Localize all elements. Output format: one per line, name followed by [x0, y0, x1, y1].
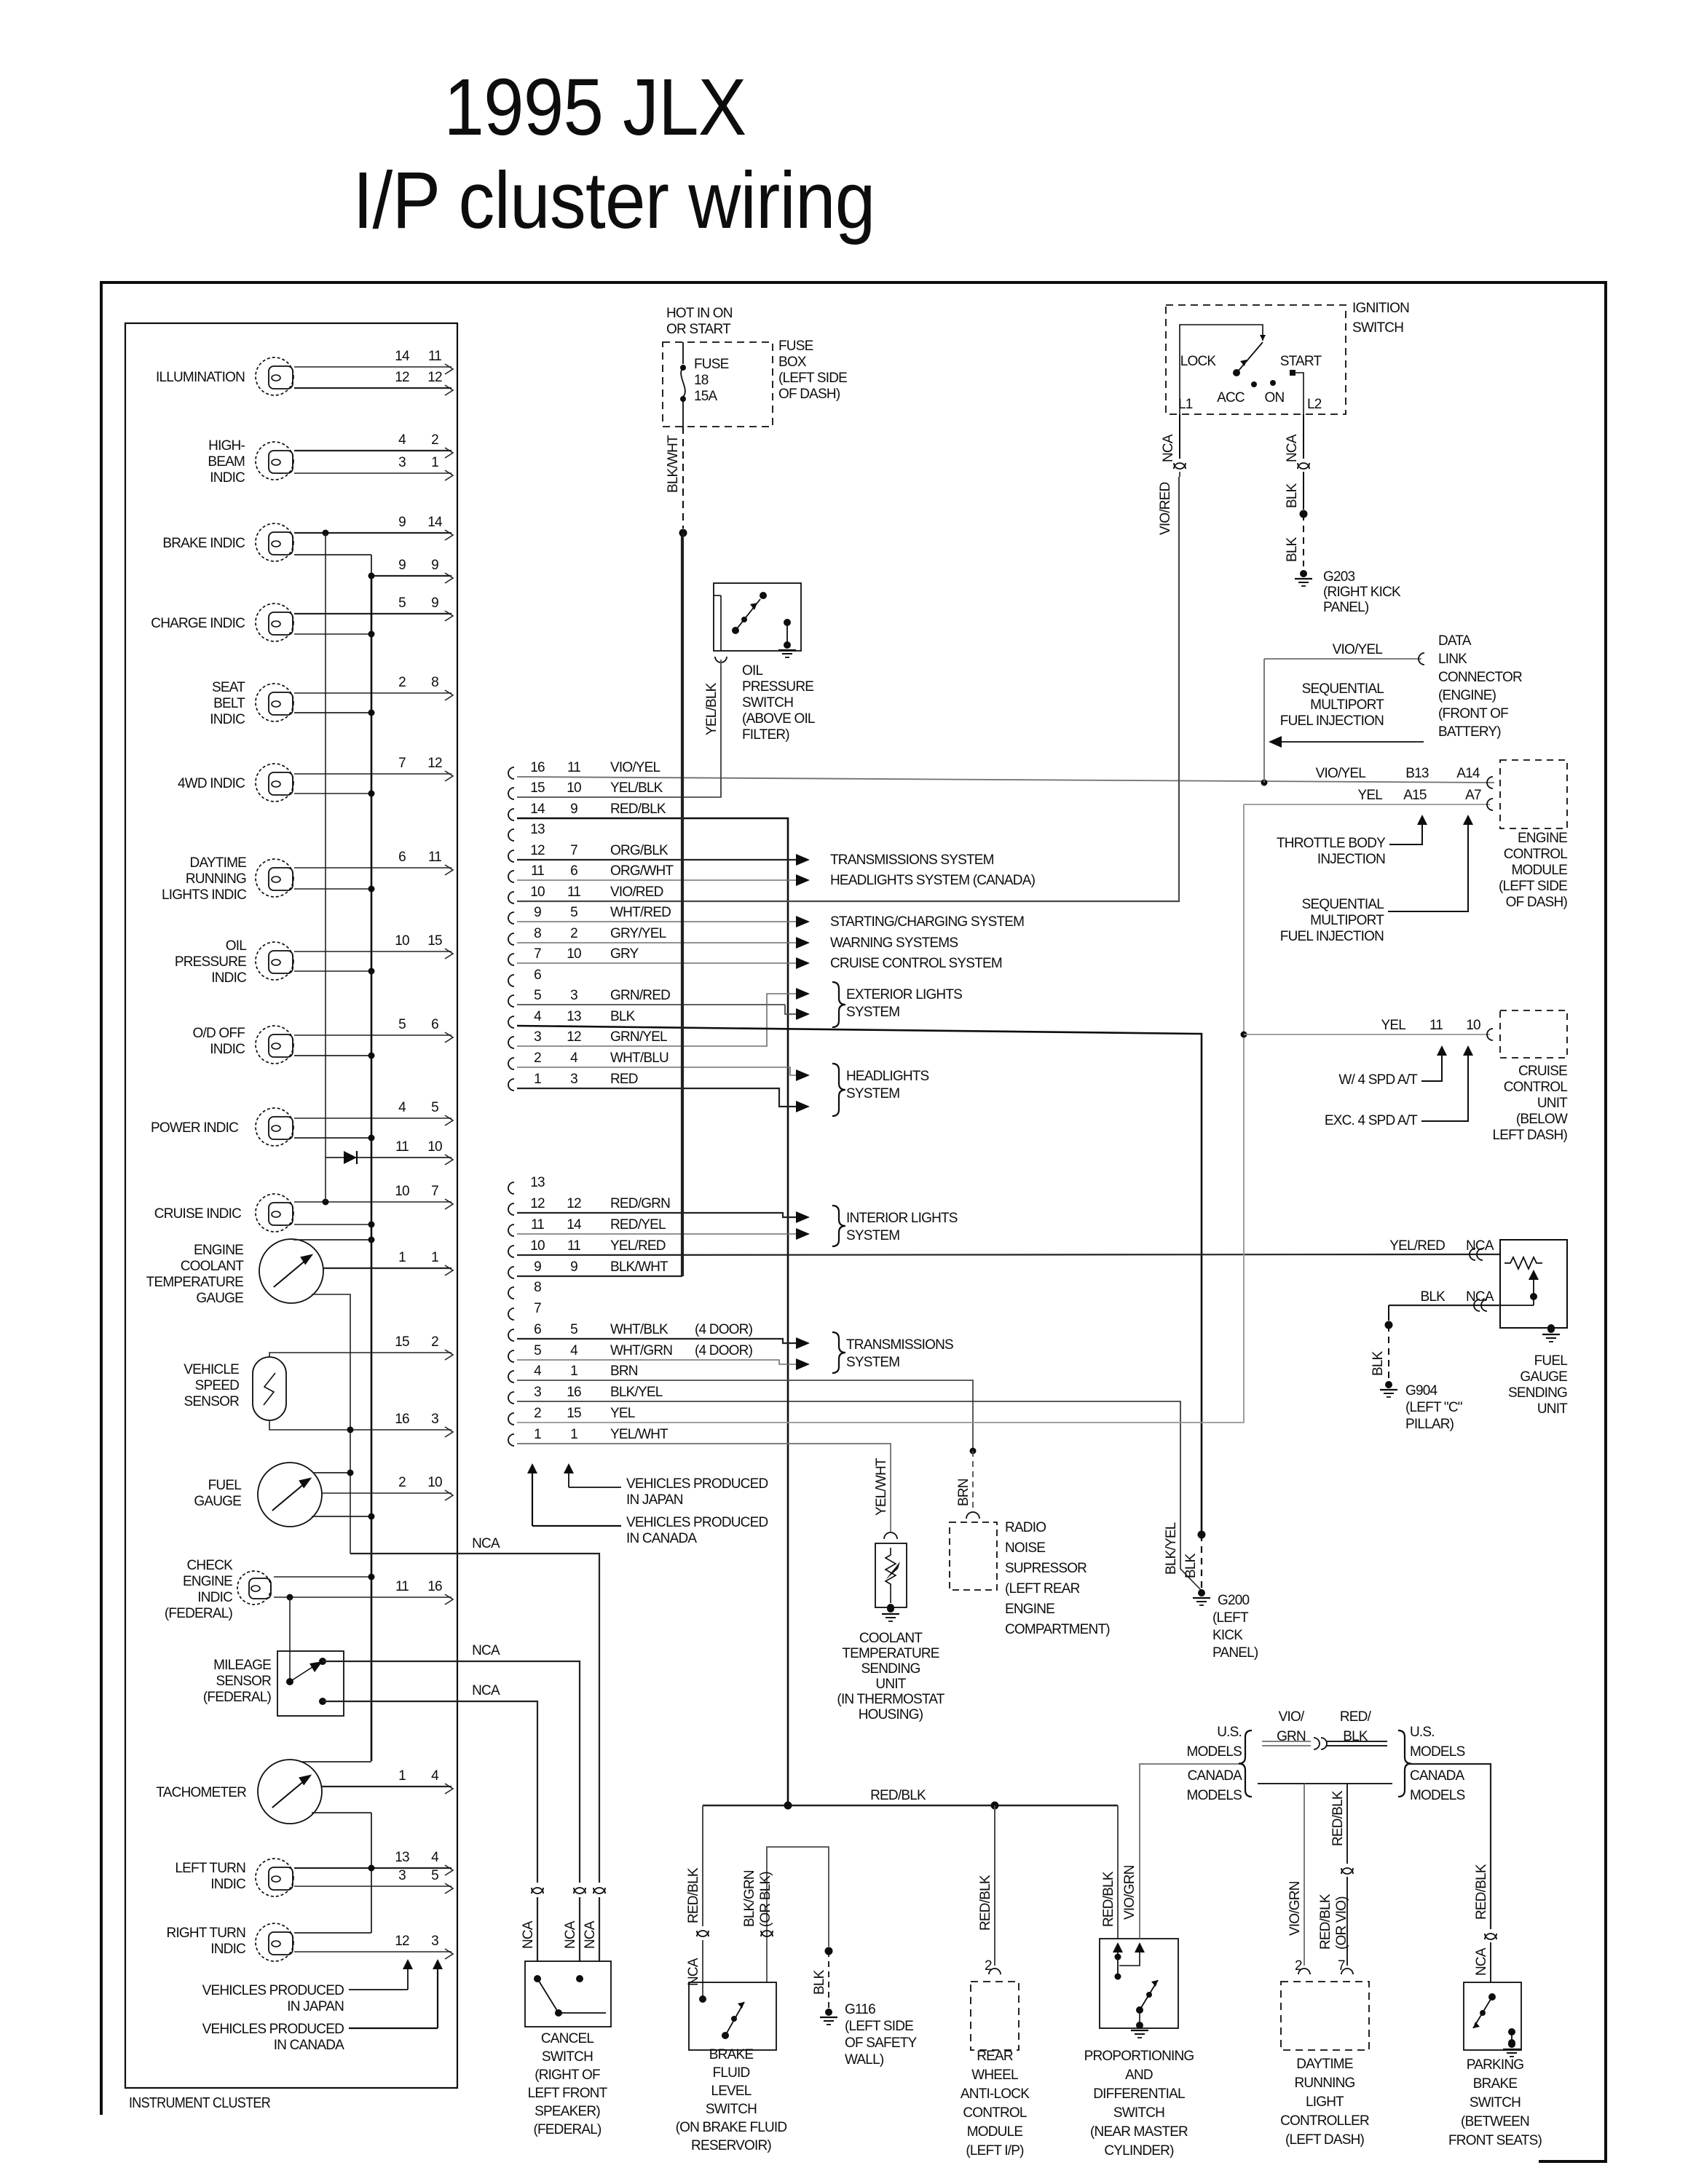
svg-text:KICK: KICK: [1212, 1628, 1243, 1643]
svg-text:(BETWEEN: (BETWEEN: [1461, 2114, 1529, 2129]
svg-text:SPEAKER): SPEAKER): [535, 2104, 600, 2119]
svg-text:2: 2: [985, 1958, 992, 1974]
svg-text:BRAKE INDIC: BRAKE INDIC: [162, 536, 245, 551]
svg-text:LINK: LINK: [1438, 652, 1467, 667]
svg-text:8: 8: [431, 675, 438, 690]
svg-text:10: 10: [427, 1139, 442, 1155]
svg-text:BATTERY): BATTERY): [1438, 724, 1501, 740]
svg-text:4: 4: [570, 1343, 578, 1358]
svg-text:YEL/RED: YEL/RED: [1389, 1238, 1445, 1254]
svg-text:2: 2: [1295, 1958, 1302, 1974]
svg-text:YEL: YEL: [1357, 788, 1382, 803]
svg-text:WALL): WALL): [845, 2052, 884, 2068]
svg-text:(LEFT SIDE: (LEFT SIDE: [1499, 879, 1567, 894]
svg-text:VEHICLE: VEHICLE: [184, 1362, 239, 1377]
svg-text:BLK/WHT: BLK/WHT: [610, 1259, 669, 1275]
svg-text:7: 7: [431, 1184, 438, 1199]
svg-text:10: 10: [427, 1475, 442, 1490]
svg-text:A15: A15: [1403, 788, 1427, 803]
svg-text:LIGHT: LIGHT: [1306, 2094, 1344, 2110]
svg-text:9: 9: [431, 596, 438, 611]
svg-text:BLK: BLK: [1183, 1553, 1199, 1578]
svg-text:VIO/RED: VIO/RED: [610, 885, 663, 900]
svg-text:MULTIPORT: MULTIPORT: [1310, 697, 1384, 713]
svg-text:(LEFT SIDE: (LEFT SIDE: [778, 371, 847, 386]
svg-text:FRONT SEATS): FRONT SEATS): [1448, 2133, 1542, 2148]
svg-text:FLUID: FLUID: [713, 2065, 750, 2081]
svg-text:(IN THERMOSTAT: (IN THERMOSTAT: [837, 1692, 944, 1707]
svg-text:IGNITION: IGNITION: [1352, 301, 1409, 316]
svg-text:12: 12: [530, 1196, 545, 1211]
svg-text:ENGINE: ENGINE: [1518, 831, 1567, 846]
svg-text:SEQUENTIAL: SEQUENTIAL: [1302, 897, 1384, 912]
svg-text:RUNNING: RUNNING: [186, 871, 246, 887]
svg-text:A7: A7: [1465, 788, 1481, 803]
svg-text:7: 7: [1338, 1958, 1345, 1974]
svg-text:OIL: OIL: [226, 938, 246, 954]
svg-text:BLK/YEL: BLK/YEL: [610, 1385, 663, 1400]
svg-text:RED: RED: [610, 1072, 638, 1087]
svg-text:YEL/WHT: YEL/WHT: [874, 1457, 889, 1516]
svg-text:3: 3: [431, 1934, 438, 1949]
svg-text:4: 4: [398, 432, 406, 448]
svg-text:PRESSURE: PRESSURE: [742, 679, 813, 695]
svg-text:6: 6: [534, 968, 541, 983]
svg-text:(4 DOOR): (4 DOOR): [695, 1322, 753, 1337]
svg-text:9: 9: [534, 1259, 541, 1275]
svg-text:INJECTION: INJECTION: [1317, 852, 1385, 867]
svg-text:INDIC: INDIC: [210, 712, 245, 727]
svg-text:2: 2: [398, 1475, 406, 1490]
svg-text:6: 6: [534, 1322, 541, 1337]
svg-text:16: 16: [530, 760, 545, 775]
svg-text:1: 1: [570, 1364, 577, 1379]
svg-text:MODELS: MODELS: [1187, 1744, 1242, 1760]
svg-text:FILTER): FILTER): [742, 727, 789, 743]
svg-text:UNIT: UNIT: [875, 1677, 906, 1692]
svg-text:5: 5: [398, 1017, 406, 1032]
svg-text:HOT IN ON: HOT IN ON: [666, 306, 733, 321]
svg-text:CONTROL: CONTROL: [1504, 847, 1568, 862]
svg-text:VIO/YEL: VIO/YEL: [1333, 642, 1383, 657]
svg-text:(ON BRAKE FLUID: (ON BRAKE FLUID: [676, 2120, 787, 2135]
svg-text:NCA: NCA: [521, 1920, 536, 1949]
svg-text:ILLUMINATION: ILLUMINATION: [156, 370, 245, 385]
svg-text:1: 1: [534, 1427, 541, 1442]
svg-text:G904: G904: [1405, 1383, 1438, 1398]
svg-text:CONTROL: CONTROL: [1504, 1080, 1568, 1095]
svg-text:2: 2: [431, 1334, 438, 1350]
svg-text:MODELS: MODELS: [1187, 1788, 1242, 1803]
svg-text:INDIC: INDIC: [210, 1042, 245, 1057]
svg-text:DAYTIME: DAYTIME: [190, 855, 247, 871]
svg-text:CANCEL: CANCEL: [541, 2031, 594, 2046]
svg-text:BLK: BLK: [1370, 1350, 1386, 1376]
svg-text:MODULE: MODULE: [1512, 863, 1568, 878]
svg-text:1: 1: [534, 1072, 541, 1087]
svg-text:RED/BLK: RED/BLK: [610, 802, 666, 817]
svg-text:7: 7: [398, 756, 406, 771]
svg-text:POWER INDIC: POWER INDIC: [151, 1120, 238, 1136]
svg-text:BRAKE: BRAKE: [1473, 2076, 1518, 2092]
svg-text:7: 7: [534, 946, 541, 962]
svg-text:9: 9: [398, 515, 406, 530]
svg-text:TACHOMETER: TACHOMETER: [156, 1785, 246, 1800]
svg-text:16: 16: [395, 1412, 409, 1427]
svg-text:BLK: BLK: [1285, 483, 1300, 508]
svg-text:WHEEL: WHEEL: [971, 2068, 1018, 2083]
svg-text:(4 DOOR): (4 DOOR): [695, 1343, 753, 1358]
svg-text:(LEFT: (LEFT: [1212, 1610, 1249, 1626]
svg-text:VIO/YEL: VIO/YEL: [610, 760, 660, 775]
svg-text:14: 14: [530, 802, 545, 817]
svg-text:(LEFT SIDE: (LEFT SIDE: [845, 2019, 913, 2034]
svg-text:5: 5: [534, 1343, 541, 1358]
svg-text:(ABOVE OIL: (ABOVE OIL: [742, 711, 815, 727]
svg-text:(FRONT OF: (FRONT OF: [1438, 706, 1508, 721]
svg-text:LIGHTS INDIC: LIGHTS INDIC: [162, 887, 246, 903]
svg-text:2: 2: [431, 432, 438, 448]
svg-text:PARKING: PARKING: [1467, 2057, 1524, 2073]
svg-text:CRUISE INDIC: CRUISE INDIC: [154, 1206, 241, 1222]
svg-text:12: 12: [427, 756, 442, 771]
svg-text:YEL: YEL: [610, 1406, 635, 1421]
svg-text:OF DASH): OF DASH): [1506, 895, 1568, 910]
svg-text:INDIC: INDIC: [211, 970, 246, 986]
svg-text:(FEDERAL): (FEDERAL): [533, 2122, 602, 2137]
svg-text:THROTTLE BODY: THROTTLE BODY: [1277, 836, 1386, 851]
svg-text:GAUGE: GAUGE: [1520, 1369, 1567, 1385]
svg-text:5: 5: [431, 1868, 438, 1883]
svg-text:VEHICLES PRODUCED: VEHICLES PRODUCED: [202, 2022, 344, 2037]
svg-text:SWITCH: SWITCH: [1113, 2105, 1164, 2121]
svg-text:1: 1: [398, 1768, 406, 1784]
svg-text:15A: 15A: [694, 389, 718, 404]
svg-text:5: 5: [431, 1100, 438, 1115]
svg-text:2: 2: [398, 675, 406, 690]
svg-text:HEADLIGHTS: HEADLIGHTS: [846, 1069, 929, 1084]
svg-text:(NEAR MASTER: (NEAR MASTER: [1090, 2124, 1188, 2140]
svg-text:OR START: OR START: [666, 322, 731, 337]
svg-text:PRESSURE: PRESSURE: [175, 954, 246, 970]
svg-text:OF DASH): OF DASH): [778, 387, 840, 402]
svg-text:TRANSMISSIONS SYSTEM: TRANSMISSIONS SYSTEM: [830, 852, 994, 868]
svg-text:B13: B13: [1405, 766, 1429, 781]
svg-text:STARTING/CHARGING SYSTEM: STARTING/CHARGING SYSTEM: [830, 914, 1024, 930]
svg-text:SPEED: SPEED: [195, 1378, 239, 1393]
svg-text:LEFT FRONT: LEFT FRONT: [528, 2086, 608, 2101]
svg-text:4: 4: [431, 1850, 439, 1865]
svg-text:5: 5: [534, 988, 541, 1003]
svg-text:1995 JLX: 1995 JLX: [444, 63, 746, 152]
svg-text:RED/GRN: RED/GRN: [610, 1196, 670, 1211]
svg-text:COMPARTMENT): COMPARTMENT): [1005, 1622, 1110, 1637]
svg-text:CHECK: CHECK: [186, 1558, 233, 1573]
svg-text:START: START: [1280, 354, 1322, 369]
svg-text:FUSE: FUSE: [778, 339, 813, 354]
svg-text:BOX: BOX: [778, 355, 807, 370]
svg-text:VIO/RED: VIO/RED: [1158, 482, 1173, 535]
svg-text:WHT/BLK: WHT/BLK: [610, 1322, 669, 1337]
svg-text:6: 6: [570, 863, 577, 879]
svg-text:15: 15: [530, 780, 545, 796]
svg-text:NCA: NCA: [1466, 1289, 1494, 1305]
svg-text:A14: A14: [1456, 766, 1480, 781]
svg-text:TEMPERATURE: TEMPERATURE: [842, 1646, 939, 1661]
svg-text:YEL/WHT: YEL/WHT: [610, 1427, 669, 1442]
svg-text:MODELS: MODELS: [1410, 1744, 1465, 1760]
svg-text:WHT/GRN: WHT/GRN: [610, 1343, 672, 1358]
svg-text:3: 3: [431, 1412, 438, 1427]
svg-text:10: 10: [567, 780, 581, 796]
svg-text:1: 1: [431, 1250, 438, 1265]
svg-text:MODELS: MODELS: [1410, 1788, 1465, 1803]
svg-text:RED/BLK: RED/BLK: [978, 1875, 993, 1931]
svg-text:RED/BLK: RED/BLK: [870, 1788, 926, 1803]
svg-text:AND: AND: [1125, 2068, 1153, 2083]
svg-text:INDIC: INDIC: [210, 470, 245, 486]
svg-text:VEHICLES PRODUCED: VEHICLES PRODUCED: [626, 1476, 768, 1492]
svg-text:10: 10: [395, 933, 409, 949]
svg-text:VIO/GRN: VIO/GRN: [1122, 1865, 1137, 1920]
svg-text:10: 10: [567, 946, 581, 962]
svg-text:10: 10: [1466, 1018, 1480, 1033]
svg-text:OIL: OIL: [742, 663, 762, 678]
svg-text:SWITCH: SWITCH: [706, 2102, 757, 2117]
svg-text:4: 4: [398, 1100, 406, 1115]
svg-text:CYLINDER): CYLINDER): [1104, 2143, 1174, 2159]
svg-text:WARNING SYSTEMS: WARNING SYSTEMS: [830, 935, 958, 951]
svg-text:11: 11: [567, 885, 580, 900]
svg-text:9: 9: [570, 802, 577, 817]
svg-text:COOLANT: COOLANT: [859, 1631, 923, 1646]
svg-text:10: 10: [530, 1238, 545, 1254]
svg-text:BELT: BELT: [213, 696, 245, 711]
svg-text:9: 9: [570, 1259, 577, 1275]
svg-text:13: 13: [567, 1009, 581, 1024]
svg-text:11: 11: [395, 1579, 409, 1594]
svg-text:3: 3: [398, 455, 406, 470]
svg-text:CANADA: CANADA: [1188, 1768, 1243, 1784]
svg-text:EXC. 4 SPD A/T: EXC. 4 SPD A/T: [1325, 1113, 1418, 1128]
svg-text:10: 10: [395, 1184, 409, 1199]
svg-text:RED/BLK: RED/BLK: [1101, 1871, 1116, 1927]
svg-text:14: 14: [395, 349, 410, 364]
svg-text:4: 4: [570, 1051, 578, 1066]
svg-text:14: 14: [427, 515, 443, 530]
svg-text:12: 12: [567, 1196, 581, 1211]
svg-text:(LEFT DASH): (LEFT DASH): [1285, 2132, 1365, 2148]
svg-text:NCA: NCA: [563, 1920, 578, 1949]
svg-text:NCA: NCA: [472, 1683, 500, 1698]
svg-text:GAUGE: GAUGE: [194, 1494, 241, 1509]
svg-text:11: 11: [531, 1217, 544, 1233]
svg-text:ENGINE: ENGINE: [194, 1243, 243, 1258]
svg-text:G203: G203: [1323, 569, 1355, 585]
svg-text:16: 16: [427, 1579, 442, 1594]
svg-text:1: 1: [398, 1250, 406, 1265]
svg-text:4: 4: [534, 1009, 542, 1024]
svg-text:MODULE: MODULE: [967, 2124, 1023, 2140]
svg-text:ORG/WHT: ORG/WHT: [610, 863, 674, 879]
svg-text:IN JAPAN: IN JAPAN: [287, 1999, 344, 2014]
svg-text:VIO/: VIO/: [1279, 1709, 1305, 1725]
svg-text:HIGH-: HIGH-: [208, 438, 245, 454]
svg-text:13: 13: [395, 1850, 409, 1865]
svg-text:14: 14: [567, 1217, 582, 1233]
svg-text:PROPORTIONING: PROPORTIONING: [1084, 2049, 1194, 2064]
svg-text:9: 9: [534, 905, 541, 920]
svg-text:G200: G200: [1218, 1593, 1250, 1608]
svg-text:WHT/RED: WHT/RED: [610, 905, 671, 920]
svg-text:INTERIOR LIGHTS: INTERIOR LIGHTS: [846, 1211, 958, 1226]
svg-text:(OR BLK): (OR BLK): [758, 1872, 773, 1927]
svg-text:LEVEL: LEVEL: [711, 2084, 751, 2099]
svg-text:YEL/BLK: YEL/BLK: [704, 682, 719, 735]
svg-text:2: 2: [570, 926, 577, 941]
svg-text:BLK: BLK: [610, 1009, 636, 1024]
svg-text:G116: G116: [845, 2002, 875, 2017]
svg-text:EXTERIOR LIGHTS: EXTERIOR LIGHTS: [846, 987, 962, 1002]
svg-text:5: 5: [570, 905, 577, 920]
svg-text:NCA: NCA: [472, 1536, 500, 1551]
svg-text:CANADA: CANADA: [1410, 1768, 1465, 1784]
svg-text:4WD INDIC: 4WD INDIC: [178, 776, 245, 791]
svg-text:3: 3: [398, 1868, 406, 1883]
svg-text:ENGINE: ENGINE: [1005, 1602, 1054, 1617]
svg-text:RED/BLK: RED/BLK: [1330, 1790, 1346, 1846]
svg-text:6: 6: [431, 1017, 438, 1032]
svg-text:3: 3: [534, 1385, 541, 1400]
svg-text:3: 3: [570, 988, 577, 1003]
svg-text:NCA: NCA: [1161, 434, 1176, 462]
svg-text:FUSE: FUSE: [694, 357, 729, 372]
svg-text:15: 15: [395, 1334, 409, 1350]
svg-text:VIO/YEL: VIO/YEL: [1316, 766, 1366, 781]
svg-text:15: 15: [427, 933, 442, 949]
svg-text:8: 8: [534, 926, 541, 941]
svg-text:SENSOR: SENSOR: [216, 1674, 272, 1689]
svg-text:VEHICLES PRODUCED: VEHICLES PRODUCED: [626, 1515, 768, 1530]
svg-text:PILLAR): PILLAR): [1405, 1417, 1454, 1432]
svg-text:11: 11: [428, 349, 441, 364]
svg-text:MULTIPORT: MULTIPORT: [1310, 913, 1384, 928]
svg-text:7: 7: [570, 843, 577, 858]
svg-text:NCA: NCA: [1474, 1947, 1489, 1976]
svg-text:BLK: BLK: [1285, 537, 1300, 562]
svg-text:11: 11: [567, 1238, 580, 1254]
svg-text:ACC: ACC: [1217, 390, 1245, 405]
svg-text:(FEDERAL): (FEDERAL): [165, 1606, 233, 1621]
svg-text:3: 3: [534, 1029, 541, 1045]
svg-text:ANTI-LOCK: ANTI-LOCK: [961, 2086, 1030, 2102]
svg-text:I/P cluster wiring: I/P cluster wiring: [353, 156, 875, 245]
svg-text:3: 3: [570, 1072, 577, 1087]
svg-text:NCA: NCA: [1285, 434, 1300, 462]
svg-text:BLK/GRN: BLK/GRN: [742, 1870, 757, 1927]
svg-text:SWITCH: SWITCH: [542, 2049, 593, 2065]
svg-text:SEQUENTIAL: SEQUENTIAL: [1302, 681, 1384, 697]
svg-text:BRN: BRN: [610, 1364, 638, 1379]
svg-text:PANEL): PANEL): [1212, 1645, 1258, 1661]
svg-text:LEFT DASH): LEFT DASH): [1492, 1128, 1567, 1143]
svg-text:YEL/RED: YEL/RED: [610, 1238, 666, 1254]
svg-text:12: 12: [427, 370, 442, 385]
svg-text:13: 13: [530, 822, 545, 837]
svg-text:1: 1: [570, 1427, 577, 1442]
svg-text:GRN/RED: GRN/RED: [610, 988, 670, 1003]
svg-text:SYSTEM: SYSTEM: [846, 1228, 899, 1243]
svg-text:5: 5: [570, 1322, 577, 1337]
svg-text:UNIT: UNIT: [1537, 1401, 1568, 1417]
svg-text:INDIC: INDIC: [210, 1877, 245, 1892]
svg-text:2: 2: [534, 1406, 541, 1421]
svg-text:FUEL: FUEL: [208, 1478, 242, 1493]
svg-text:RUNNING: RUNNING: [1294, 2076, 1354, 2091]
svg-text:INDIC: INDIC: [210, 1942, 245, 1957]
svg-text:RED/BLK: RED/BLK: [1318, 1894, 1333, 1950]
svg-text:CONTROLLER: CONTROLLER: [1280, 2113, 1369, 2129]
svg-text:10: 10: [530, 885, 545, 900]
svg-text:L1: L1: [1178, 397, 1193, 412]
svg-text:SWITCH: SWITCH: [1352, 320, 1403, 336]
svg-text:TEMPERATURE: TEMPERATURE: [146, 1275, 243, 1290]
svg-text:GAUGE: GAUGE: [196, 1291, 243, 1306]
svg-text:6: 6: [398, 850, 406, 865]
svg-text:(LEFT "C": (LEFT "C": [1405, 1400, 1462, 1415]
svg-text:U.S.: U.S.: [1217, 1725, 1242, 1740]
svg-text:IN CANADA: IN CANADA: [274, 2038, 344, 2053]
svg-text:SENDING: SENDING: [861, 1661, 920, 1677]
svg-text:CRUISE: CRUISE: [1518, 1064, 1567, 1079]
svg-text:VEHICLES PRODUCED: VEHICLES PRODUCED: [202, 1983, 344, 1998]
svg-text:SENDING: SENDING: [1508, 1385, 1567, 1401]
svg-text:BLK/YEL: BLK/YEL: [1164, 1522, 1179, 1575]
svg-text:2: 2: [534, 1051, 541, 1066]
svg-text:12: 12: [395, 1934, 409, 1949]
svg-text:(ENGINE): (ENGINE): [1438, 688, 1496, 703]
svg-text:FUEL: FUEL: [1534, 1353, 1568, 1369]
svg-text:WHT/BLU: WHT/BLU: [610, 1051, 669, 1066]
svg-text:TRANSMISSIONS: TRANSMISSIONS: [846, 1337, 953, 1353]
svg-text:OF SAFETY: OF SAFETY: [845, 2035, 917, 2051]
svg-text:CONTROL: CONTROL: [963, 2105, 1027, 2121]
svg-text:W/ 4 SPD A/T: W/ 4 SPD A/T: [1338, 1072, 1418, 1088]
svg-text:(LEFT REAR: (LEFT REAR: [1005, 1581, 1080, 1597]
svg-text:(OR VIO): (OR VIO): [1334, 1896, 1349, 1950]
svg-text:COOLANT: COOLANT: [181, 1259, 244, 1274]
svg-text:12: 12: [395, 370, 409, 385]
svg-text:RIGHT TURN: RIGHT TURN: [167, 1926, 246, 1941]
svg-text:GRN/YEL: GRN/YEL: [610, 1029, 667, 1045]
svg-text:NOISE: NOISE: [1005, 1540, 1045, 1556]
svg-text:BEAM: BEAM: [208, 454, 245, 470]
svg-text:BRN: BRN: [956, 1479, 971, 1506]
svg-text:9: 9: [431, 558, 438, 573]
svg-text:UNIT: UNIT: [1537, 1096, 1568, 1111]
svg-text:HOUSING): HOUSING): [859, 1707, 923, 1722]
svg-text:16: 16: [567, 1385, 581, 1400]
svg-text:BLK: BLK: [1420, 1289, 1446, 1305]
svg-text:7: 7: [534, 1301, 541, 1316]
svg-text:RESERVOIR): RESERVOIR): [691, 2138, 771, 2153]
svg-text:YEL/BLK: YEL/BLK: [610, 780, 663, 796]
svg-text:INDIC: INDIC: [197, 1590, 232, 1605]
svg-text:DIFFERENTIAL: DIFFERENTIAL: [1093, 2086, 1185, 2102]
svg-text:BRAKE: BRAKE: [709, 2047, 754, 2062]
svg-text:(FEDERAL): (FEDERAL): [203, 1690, 272, 1705]
svg-text:MILEAGE: MILEAGE: [213, 1658, 271, 1673]
